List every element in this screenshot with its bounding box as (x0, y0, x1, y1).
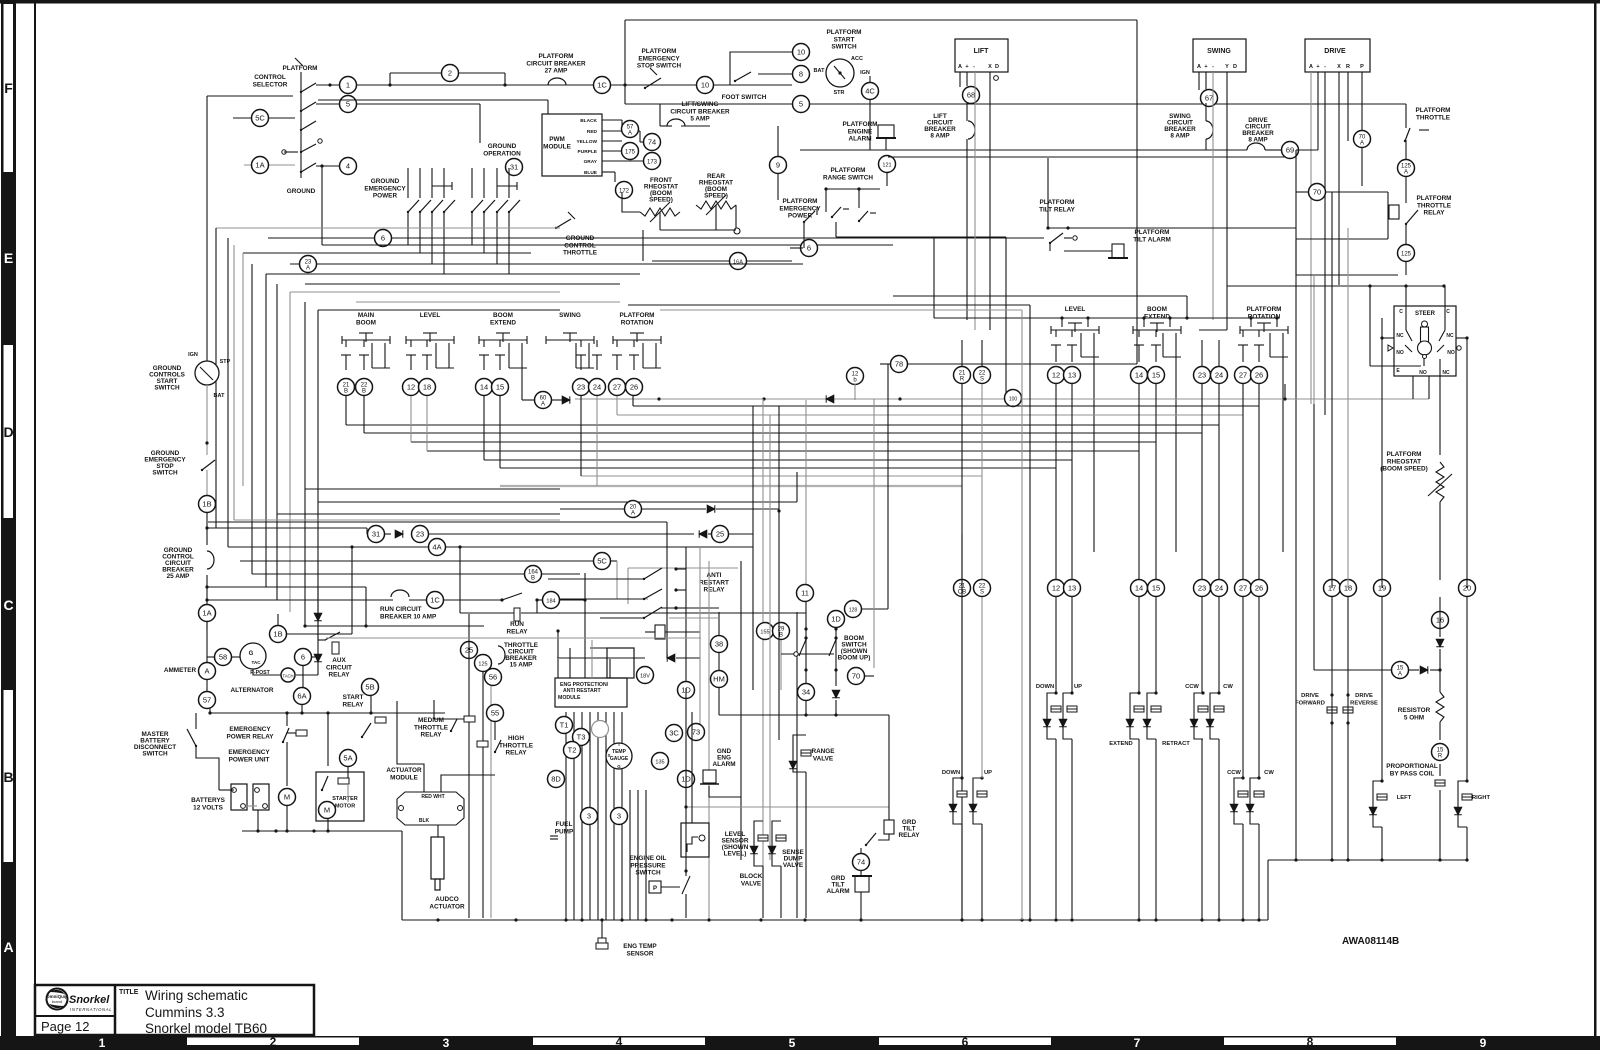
wire (1405, 224, 1407, 245)
wire (780, 866, 782, 918)
tie bar (432, 185, 452, 187)
wire 5C (233, 117, 295, 119)
wire (385, 533, 391, 535)
wire (1439, 764, 1441, 776)
switch start relay b (361, 723, 371, 738)
wire prong tie (576, 367, 594, 369)
wire (240, 560, 593, 562)
junction (657, 397, 660, 400)
svg-text:BREAKER 10 AMP: BREAKER 10 AMP (380, 613, 437, 620)
junction (1185, 316, 1188, 319)
connector row2 18 (1340, 580, 1357, 597)
wire 1296 (1295, 404, 1297, 860)
component (240, 643, 266, 669)
wire loop steer right (1458, 781, 1467, 827)
svg-text:(BOOM SPEED): (BOOM SPEED) (1380, 466, 1428, 473)
svg-text:THROTTLE: THROTTLE (1417, 202, 1452, 209)
svg-text:RETRACT: RETRACT (1162, 741, 1190, 747)
wire prong4 (588, 343, 590, 368)
wire plunger down (1423, 358, 1425, 366)
svg-text:HM: HM (713, 675, 725, 684)
label engine oil pressure (630, 855, 667, 877)
component (477, 741, 488, 747)
wire (410, 340, 412, 347)
svg-text:F: F (4, 80, 13, 96)
wire tilt r (1068, 227, 1296, 229)
component (734, 228, 740, 234)
label platform emergency power (779, 198, 821, 220)
diode rot ccw (1190, 719, 1198, 727)
wire alarm tail (709, 786, 741, 797)
solenoid dump (776, 835, 786, 841)
svg-text:PROPORTIONAL: PROPORTIONAL (1386, 763, 1438, 770)
junction (834, 636, 837, 639)
wire loop extend (1130, 693, 1139, 739)
pin A (1197, 64, 1201, 70)
switch gnd estop (201, 460, 215, 471)
wire col drop (345, 396, 347, 425)
label emergency power relay (227, 726, 275, 740)
svg-text:D: D (1233, 64, 1237, 70)
wire (580, 340, 582, 347)
wire 587 (208, 586, 366, 588)
svg-text:3C: 3C (669, 729, 679, 738)
wire (1466, 597, 1468, 781)
svg-text:12: 12 (1052, 371, 1060, 380)
wire (547, 100, 549, 114)
diode steer left (1369, 807, 1377, 815)
svg-text:MODULE: MODULE (558, 695, 581, 701)
connector 38 (711, 636, 728, 653)
audco tip (435, 879, 440, 890)
junction (1201, 691, 1204, 694)
svg-text:Y: Y (1225, 64, 1229, 70)
wire prong tie (372, 367, 390, 369)
svg-text:4: 4 (346, 162, 350, 171)
switch starter (321, 776, 328, 791)
label I (618, 742, 619, 747)
switch tilt relay (1049, 233, 1063, 244)
switch emergency stop (644, 78, 661, 89)
wire pwm (602, 119, 622, 121)
pin D (1233, 64, 1237, 70)
wire prong4 (448, 343, 450, 368)
wire (1405, 261, 1407, 275)
component (1418, 321, 1432, 359)
wire 585 (584, 573, 586, 678)
svg-text:A: A (1404, 170, 1408, 176)
svg-text:NC: NC (1396, 333, 1404, 339)
svg-text:RELAY: RELAY (505, 750, 527, 757)
connector 164B (525, 566, 542, 583)
wire sw drop (496, 212, 498, 264)
wire 5 to platform (625, 103, 792, 105)
wire out (676, 589, 686, 591)
wire stem (1061, 318, 1063, 327)
wire 16A (652, 260, 729, 262)
connector row2 24 (1211, 580, 1228, 597)
bank symbol (479, 333, 527, 344)
svg-text:15: 15 (1152, 371, 1160, 380)
wire 125 run (1296, 274, 1398, 276)
svg-text:B: B (779, 633, 783, 639)
junction (804, 627, 807, 630)
junction (326, 711, 329, 714)
wire bottom bus right (1268, 859, 1467, 861)
connector 18 (419, 379, 436, 396)
svg-text:RELAY: RELAY (1423, 210, 1445, 217)
wire 1006 (1005, 237, 1007, 398)
svg-text:SWITCH: SWITCH (154, 385, 180, 392)
wire alt (253, 669, 281, 675)
wire loop level up (1063, 693, 1072, 739)
label bank MAIN BOOM (356, 312, 376, 326)
svg-text:MODULE: MODULE (543, 143, 571, 150)
svg-text:M: M (284, 793, 290, 802)
bank symbol (1133, 323, 1181, 334)
wire col20 in (1456, 337, 1467, 339)
junction (1241, 776, 1244, 779)
connector TACH (281, 668, 295, 682)
connector 74b (853, 854, 870, 871)
label DRIVE (1324, 48, 1346, 55)
svg-text:A: A (1398, 672, 1402, 678)
svg-text:26: 26 (1255, 584, 1263, 593)
wire (685, 894, 687, 918)
svg-text:70: 70 (852, 672, 860, 681)
wire left bus (276, 284, 278, 600)
wire left bus g (289, 292, 291, 612)
svg-text:1A: 1A (202, 609, 211, 618)
wire sw top (496, 168, 498, 198)
svg-text:A: A (306, 266, 310, 272)
wire (878, 834, 889, 840)
connector 1A (252, 157, 269, 174)
wire left bus (251, 264, 253, 574)
wire (446, 546, 753, 548)
wire col tail (1071, 739, 1073, 920)
breaker drive (1247, 143, 1265, 150)
wire (1242, 330, 1244, 337)
connector row2 22S (974, 580, 991, 597)
label PLATFORM (282, 65, 317, 72)
svg-text:ENGINE: ENGINE (848, 128, 873, 135)
junction (762, 397, 765, 400)
svg-text:57: 57 (203, 696, 211, 705)
label gauge (610, 756, 629, 762)
svg-text:1A: 1A (255, 161, 264, 170)
label starter motor (332, 796, 358, 809)
pin BLUE (584, 170, 598, 176)
label FOOT SWITCH (722, 94, 767, 101)
wire 100 bus (575, 398, 1004, 400)
connector 31 (506, 159, 523, 176)
bus wire 8 (500, 467, 1056, 469)
label CW2 (1264, 770, 1274, 776)
junction (1346, 721, 1349, 724)
svg-text:FORWARD: FORWARD (1295, 700, 1325, 706)
wire (232, 656, 240, 658)
connector 18V (637, 667, 654, 684)
svg-text:5 AMP: 5 AMP (690, 116, 710, 123)
wire (207, 656, 215, 658)
label GROUND (287, 188, 316, 195)
wire (1331, 597, 1333, 860)
svg-text:27: 27 (1239, 371, 1247, 380)
wire (1201, 340, 1203, 366)
junction bus2 (1294, 858, 1297, 861)
connector row2 20 (1459, 580, 1476, 597)
wire col right (961, 384, 963, 579)
wire sw drop (407, 212, 409, 245)
label NC1 (1396, 333, 1404, 339)
svg-text:A: A (3, 939, 13, 955)
svg-text:DRIVE: DRIVE (1301, 693, 1319, 699)
svg-text:LEVEL: LEVEL (420, 312, 441, 319)
junction (320, 164, 323, 167)
svg-text:8: 8 (1307, 1035, 1314, 1049)
wire (1071, 330, 1073, 337)
solenoid range (801, 750, 811, 756)
svg-text:PLATFORM: PLATFORM (782, 198, 817, 205)
wire 305 (628, 304, 1030, 306)
junction (364, 624, 367, 627)
svg-text:LIFT: LIFT (974, 48, 989, 55)
svg-text:START: START (834, 36, 855, 43)
svg-text:FOOT SWITCH: FOOT SWITCH (722, 94, 767, 101)
junction (1257, 776, 1260, 779)
connector 27 (609, 379, 626, 396)
connector 12 (403, 379, 420, 396)
svg-text:TITLE: TITLE (119, 989, 139, 996)
wire 19col (1381, 318, 1383, 588)
connector 1Db (678, 771, 695, 788)
wire (681, 125, 710, 127)
label ground emergency power (364, 178, 406, 200)
wire (1218, 340, 1220, 366)
wire (1439, 722, 1441, 740)
label NO2 (1447, 350, 1455, 356)
steer finger R (1437, 345, 1444, 352)
svg-text:16A: 16A (733, 260, 743, 266)
bus wire 5 (411, 441, 1156, 443)
diode rot cw (1206, 719, 1214, 727)
wire 797 col (796, 612, 798, 918)
junction (1442, 284, 1445, 287)
connector 26 (626, 379, 643, 396)
svg-text:X: X (988, 64, 992, 70)
wire nest 7 (318, 309, 560, 311)
wire loop swing cw (1250, 778, 1259, 824)
wire loop boom up (973, 778, 982, 824)
wire (708, 533, 711, 535)
label drive forward (1295, 693, 1325, 706)
svg-text:58: 58 (219, 653, 227, 662)
sub box (607, 648, 634, 678)
pin - (973, 64, 975, 70)
wire nest g3 (356, 301, 620, 303)
connector 125b (475, 655, 492, 672)
junction (777, 509, 780, 512)
svg-text:7: 7 (1134, 1036, 1141, 1050)
fuel sym2 (550, 838, 558, 840)
wire prong drop (1282, 357, 1284, 552)
wire (560, 599, 585, 601)
component (826, 59, 854, 87)
switch selector open (300, 144, 316, 153)
wire prong4 (655, 343, 657, 368)
label red wht (421, 794, 444, 800)
label swing breaker (1164, 113, 1196, 140)
junction (1275, 316, 1278, 319)
svg-text:26: 26 (1255, 371, 1263, 380)
label run breaker (380, 606, 437, 620)
wire mod t3 (591, 640, 593, 678)
wire drop (321, 166, 323, 245)
arrow (568, 212, 575, 219)
wire (1155, 597, 1157, 693)
svg-text:G: G (617, 764, 621, 769)
label CONTROL SELECTOR (253, 74, 288, 88)
svg-text:BLACK: BLACK (580, 118, 597, 124)
label NO3 (1419, 370, 1427, 376)
component (332, 642, 339, 654)
svg-text:SENSOR: SENSOR (627, 950, 654, 957)
wire feed (600, 578, 644, 580)
svg-text:4: 4 (616, 1035, 623, 1049)
svg-text:I: I (618, 742, 619, 747)
wire prong4 (1175, 333, 1177, 357)
svg-text:RED: RED (587, 129, 598, 135)
svg-text:D: D (995, 64, 999, 70)
bus wire 7 (484, 459, 1072, 461)
wire run2 (444, 599, 502, 601)
svg-text:RHEOSTAT: RHEOSTAT (1387, 458, 1421, 465)
bank symbol (613, 333, 661, 344)
tick (870, 212, 876, 214)
steer contact R (1439, 330, 1445, 341)
wire run (208, 599, 393, 601)
connector row2 27 (1235, 580, 1252, 597)
wire left bus (215, 228, 217, 528)
wire col drop (426, 396, 428, 451)
svg-text:NO: NO (1447, 350, 1455, 356)
svg-text:POWER: POWER (788, 213, 813, 220)
wire (961, 824, 963, 920)
junction bus2 (1346, 858, 1349, 861)
wire (676, 657, 700, 659)
label lift breaker (924, 113, 956, 140)
steer finger L (1405, 345, 1412, 352)
wire g 638 (326, 637, 701, 639)
connector 6A (294, 688, 311, 705)
svg-text:HIGH: HIGH (508, 735, 524, 742)
wire stub (1064, 237, 1072, 239)
wire 962 ext (961, 534, 963, 920)
wire loop dump (772, 821, 781, 866)
wire module drop (565, 712, 567, 920)
wire prong3 (1162, 333, 1164, 357)
motor M (279, 789, 296, 806)
connector 5C (252, 110, 269, 127)
label block valve (740, 873, 763, 887)
connector 25 (712, 526, 729, 543)
diode 15A (1420, 666, 1428, 674)
wire module drop (621, 712, 623, 920)
wire to selector (207, 95, 293, 97)
label NC3 (1442, 370, 1450, 376)
connector 5A (340, 750, 357, 767)
wire 78 r (908, 363, 1137, 365)
svg-text:M: M (324, 806, 330, 815)
junction (684, 869, 687, 872)
wire (966, 103, 968, 121)
svg-text:73: 73 (692, 728, 700, 737)
label IGN (860, 70, 870, 76)
connector r14 (1131, 367, 1148, 384)
svg-text:NO: NO (1396, 350, 1404, 356)
wire 626 (305, 625, 484, 627)
junction bus (514, 918, 517, 921)
svg-text:A: A (628, 131, 632, 137)
wire prong tie (1163, 356, 1181, 358)
wire 613 (460, 612, 514, 614)
svg-text:PLATFORM: PLATFORM (641, 48, 676, 55)
connector 173 (644, 153, 661, 170)
diode 20A (707, 505, 715, 513)
battery (253, 784, 269, 810)
connector 23A (300, 256, 317, 273)
wire g 568 (628, 567, 738, 569)
wire loop steer left (1373, 781, 1382, 827)
wire rg 781 (780, 640, 782, 690)
pin + (965, 64, 968, 70)
wire (363, 340, 365, 347)
wire sw top (407, 168, 409, 198)
svg-text:LEFT: LEFT (1397, 795, 1412, 801)
svg-text:24: 24 (593, 383, 601, 392)
svg-text:PLATFORM: PLATFORM (282, 65, 317, 72)
solenoid swing ccw (1238, 791, 1248, 797)
junction (857, 187, 860, 190)
svg-text:-: - (973, 64, 975, 70)
pin GRAY (584, 159, 598, 165)
svg-text:67: 67 (1205, 94, 1213, 103)
contact (1419, 129, 1429, 131)
wire left trunk (206, 96, 208, 361)
wire level feed (691, 712, 693, 823)
diode extend (1126, 719, 1134, 727)
svg-text:74: 74 (857, 858, 865, 867)
pin RED (587, 129, 598, 135)
component (1073, 236, 1077, 240)
wire (1258, 330, 1260, 337)
connector r27 (1235, 367, 1252, 384)
wire rg 763 (762, 399, 764, 622)
wire left bus (227, 238, 229, 547)
wire prong3 (642, 343, 644, 368)
wire sw drop (443, 212, 445, 274)
wire (557, 631, 559, 658)
component (195, 361, 219, 385)
label gnd ctrl breaker (162, 547, 194, 580)
connector 1Dc (828, 611, 845, 628)
wire (1055, 330, 1057, 337)
label ALTERNATOR (231, 687, 274, 694)
wire (317, 662, 319, 675)
bus wire 10 (318, 501, 797, 503)
wire (1138, 330, 1140, 337)
